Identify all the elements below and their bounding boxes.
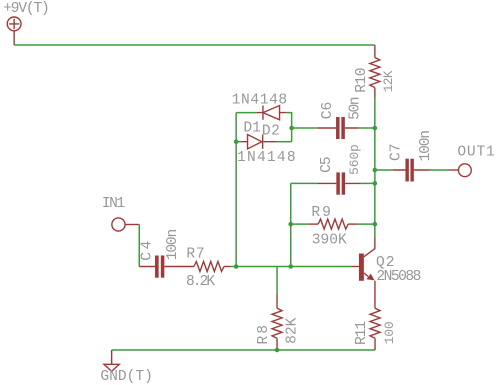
svg-text:D2: D2 bbox=[262, 124, 281, 140]
svg-text:R10: R10 bbox=[354, 68, 370, 93]
svg-text:100n: 100n bbox=[165, 230, 181, 261]
svg-text:8.2K: 8.2K bbox=[186, 274, 215, 290]
svg-text:100: 100 bbox=[382, 321, 397, 344]
svg-text:100n: 100n bbox=[418, 131, 434, 162]
svg-text:2N5088: 2N5088 bbox=[376, 269, 420, 285]
svg-text:50n: 50n bbox=[348, 97, 364, 120]
svg-text:R11: R11 bbox=[354, 320, 370, 345]
svg-text:12K: 12K bbox=[381, 70, 396, 92]
svg-text:1N4148: 1N4148 bbox=[232, 92, 288, 108]
svg-text:C5: C5 bbox=[319, 157, 335, 173]
svg-text:D1: D1 bbox=[243, 120, 261, 136]
svg-text:1N4148: 1N4148 bbox=[237, 150, 297, 166]
svg-text:C6: C6 bbox=[320, 102, 336, 120]
svg-text:GND(T): GND(T) bbox=[100, 369, 153, 385]
svg-text:IN1: IN1 bbox=[102, 196, 126, 212]
svg-text:560p: 560p bbox=[347, 144, 362, 175]
svg-text:82K: 82K bbox=[285, 317, 301, 344]
svg-text:390K: 390K bbox=[312, 232, 347, 248]
svg-text:C4: C4 bbox=[140, 238, 156, 261]
svg-text:R8: R8 bbox=[256, 323, 272, 345]
svg-text:C7: C7 bbox=[389, 143, 405, 161]
svg-text:R7: R7 bbox=[186, 247, 205, 263]
svg-text:+9V(T): +9V(T) bbox=[3, 1, 48, 17]
svg-text:OUT1: OUT1 bbox=[457, 144, 495, 160]
svg-text:R9: R9 bbox=[311, 205, 333, 221]
